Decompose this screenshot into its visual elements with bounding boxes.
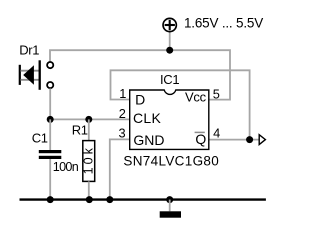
- svg-text:GND: GND: [133, 132, 164, 148]
- wire: power rail top: [50, 50, 230, 99]
- svg-text:100n: 100n: [53, 160, 79, 174]
- svg-text:R1: R1: [72, 123, 88, 138]
- wire: CLK net to IC pin 2: [50, 118, 130, 120]
- node: C1 ground junction: [47, 196, 54, 203]
- svg-text:1: 1: [119, 86, 126, 101]
- svg-text:5: 5: [213, 86, 220, 101]
- svg-text:IC1: IC1: [160, 72, 179, 87]
- wire: R1 bottom lead: [88, 181, 90, 199]
- wire: feedback Q to D: [111, 70, 250, 139]
- wire: IC GND pin to ground rail: [110, 139, 130, 199]
- wire: Q output to arrow: [209, 139, 260, 141]
- node: R1 ground junction: [86, 196, 93, 203]
- node: CLK/C1 junction: [47, 116, 54, 123]
- op-amp/IC body IC1: [130, 90, 209, 149]
- svg-text:1.65V ... 5.5V: 1.65V ... 5.5V: [184, 16, 263, 31]
- svg-text:3: 3: [119, 126, 126, 141]
- resistor R1: [82, 141, 96, 182]
- svg-text:D: D: [135, 92, 145, 108]
- wire: Dr1 bottom to CLK node: [49, 89, 51, 120]
- wire: ground symbol stub: [169, 200, 171, 212]
- svg-text:CLK: CLK: [133, 110, 161, 126]
- ground rail: [20, 198, 266, 200]
- output arrow: [259, 135, 265, 145]
- ground symbol: [160, 211, 181, 217]
- supply symbol +V: [163, 18, 176, 31]
- svg-text:4: 4: [213, 125, 220, 140]
- node: power junction: [166, 47, 173, 54]
- piezo transducer Dr1: [20, 60, 40, 90]
- node: R1 top junction: [85, 116, 92, 123]
- svg-text:2: 2: [119, 106, 126, 121]
- pin circle Dr1 bottom: [47, 82, 53, 88]
- svg-text:Q: Q: [195, 131, 206, 147]
- svg-text:C1: C1: [32, 131, 48, 146]
- overline of Q: [195, 131, 205, 133]
- capacitor C1: [39, 150, 62, 159]
- node: ground symbol junction: [166, 196, 173, 203]
- node: IC GND junction: [106, 196, 113, 203]
- svg-text:10k: 10k: [82, 145, 96, 174]
- wire: supply symbol stub: [169, 32, 171, 50]
- svg-text:SN74LVC1G80: SN74LVC1G80: [123, 154, 219, 169]
- svg-text:Vcc: Vcc: [185, 90, 207, 105]
- svg-text:Dr1: Dr1: [19, 42, 39, 57]
- wire: C1 bottom lead: [49, 159, 51, 200]
- node: output junction: [246, 136, 253, 143]
- wire: C1 top lead: [49, 119, 51, 150]
- wire: R1 top lead: [88, 119, 90, 140]
- pin circle Dr1 top: [47, 62, 53, 68]
